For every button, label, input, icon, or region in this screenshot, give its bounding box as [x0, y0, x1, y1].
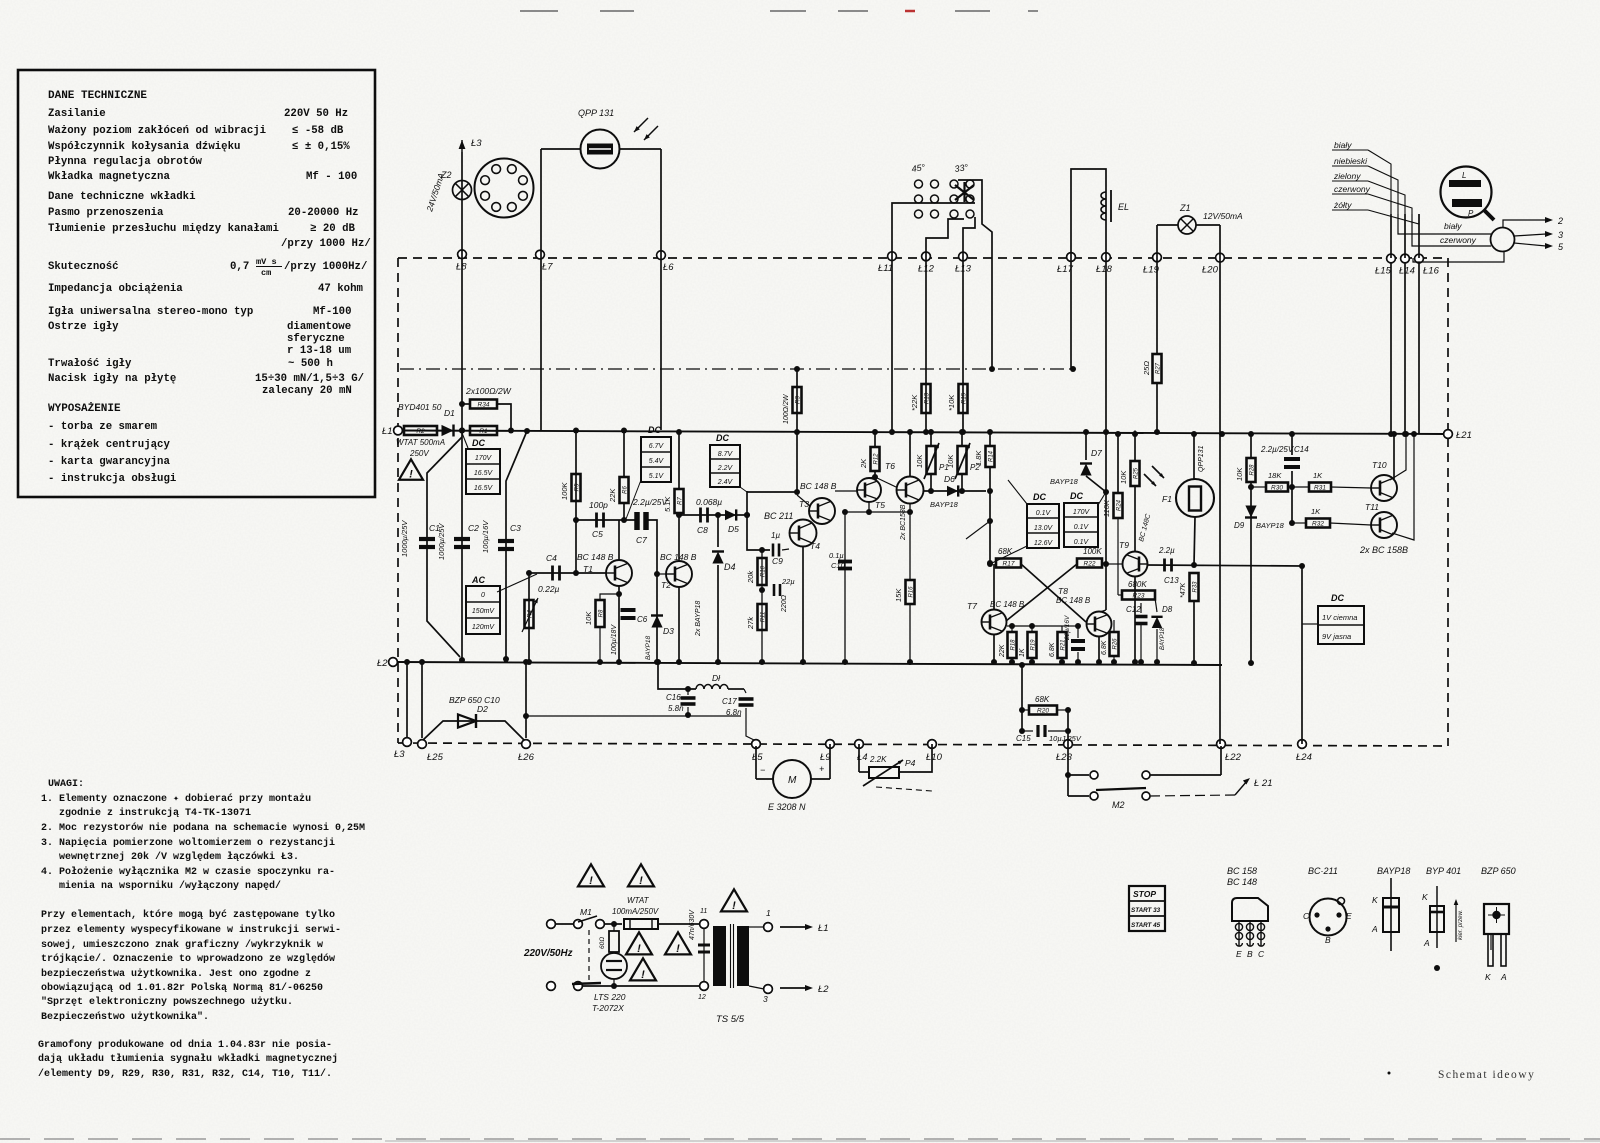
svg-text:T2: T2: [661, 580, 671, 590]
svg-text:3. Napięcia pomierzone woltomi: 3. Napięcia pomierzone woltomierzem o re…: [41, 837, 335, 849]
svg-text:BC 148 B: BC 148 B: [990, 600, 1025, 609]
svg-text:Ł2: Ł2: [377, 658, 388, 669]
svg-text:BAYP18: BAYP18: [645, 636, 652, 660]
svg-text:"Sprzęt elektroniczny powszech: "Sprzęt elektroniczny powszechnego użytk…: [41, 996, 293, 1008]
svg-text:BC 148 B: BC 148 B: [800, 481, 837, 491]
svg-text:DC: DC: [1070, 491, 1083, 501]
svg-text:przez elementy wyspecyfikowane: przez elementy wyspecyfikowane w instruk…: [41, 924, 341, 936]
svg-text:!: !: [409, 469, 413, 481]
svg-text:Mf - 100: Mf - 100: [306, 171, 357, 183]
svg-text:Ł6: Ł6: [663, 262, 674, 273]
svg-text:C16: C16: [666, 693, 681, 702]
svg-text:BC 148: BC 148: [1227, 877, 1257, 887]
svg-text:Z1: Z1: [1179, 203, 1191, 213]
svg-text:8.7V: 8.7V: [718, 451, 734, 458]
svg-text:16.5V: 16.5V: [474, 470, 494, 477]
svg-text:C3: C3: [510, 523, 521, 533]
svg-text:R13: R13: [924, 392, 930, 404]
svg-text:K: K: [1372, 895, 1378, 905]
svg-text:D9: D9: [1234, 521, 1245, 530]
svg-text:1µ: 1µ: [771, 531, 780, 540]
svg-text:T8: T8: [1058, 586, 1068, 596]
svg-text:T7: T7: [967, 601, 977, 611]
svg-text:10K: 10K: [584, 611, 593, 625]
svg-text:220Ω: 220Ω: [781, 594, 788, 613]
svg-text:5.4V: 5.4V: [649, 458, 665, 465]
svg-text:Ł11: Ł11: [878, 263, 893, 274]
svg-text:C5: C5: [592, 529, 603, 539]
svg-text:BC 148 B: BC 148 B: [1056, 596, 1091, 605]
svg-text:C15: C15: [1016, 734, 1031, 743]
svg-text:K: K: [1485, 972, 1491, 982]
svg-text:6.7V: 6.7V: [649, 443, 665, 450]
svg-text:R2: R2: [416, 428, 425, 435]
svg-text:C8: C8: [697, 525, 708, 535]
svg-text:Trwałość igły: Trwałość igły: [48, 358, 132, 370]
svg-text:+: +: [819, 764, 824, 774]
svg-text:L: L: [1462, 171, 1466, 180]
svg-text:100K: 100K: [1083, 547, 1102, 556]
svg-text:R3: R3: [795, 396, 801, 404]
svg-text:3: 3: [1558, 230, 1563, 240]
svg-text:R31: R31: [1314, 485, 1326, 492]
svg-text:250V: 250V: [409, 449, 429, 458]
svg-text:P4: P4: [905, 758, 916, 768]
svg-text:START 33: START 33: [1131, 907, 1161, 914]
svg-text:R5: R5: [574, 483, 580, 491]
svg-text:R34: R34: [478, 402, 490, 409]
svg-text:6.8K: 6.8K: [1049, 642, 1056, 657]
svg-text:≤ ± 0,15%: ≤ ± 0,15%: [292, 141, 350, 153]
svg-text:T6: T6: [885, 461, 895, 471]
svg-text:0,7: 0,7: [230, 261, 249, 273]
svg-text:47 kohm: 47 kohm: [318, 283, 363, 295]
svg-text:niebieski: niebieski: [1334, 156, 1368, 166]
svg-text:Ostrze igły: Ostrze igły: [48, 321, 119, 333]
svg-text:QPP 131: QPP 131: [578, 108, 614, 118]
svg-text:AC: AC: [471, 575, 485, 585]
svg-text:18K: 18K: [1268, 471, 1282, 480]
svg-text:6.8K: 6.8K: [1101, 640, 1108, 655]
svg-text:biały: biały: [1444, 221, 1462, 231]
svg-text:F1: F1: [1162, 494, 1172, 504]
svg-text:1: 1: [766, 908, 771, 918]
svg-text:!: !: [637, 943, 641, 955]
svg-text:2K: 2K: [859, 458, 868, 469]
svg-text:B: B: [1247, 949, 1253, 959]
svg-text:2.2µ: 2.2µ: [1158, 546, 1175, 555]
svg-text:DC: DC: [716, 433, 729, 443]
svg-text:5.1K: 5.1K: [663, 496, 672, 512]
svg-text:12V/50mA: 12V/50mA: [1203, 211, 1243, 221]
svg-text:M: M: [788, 775, 797, 786]
svg-text:4. Położenie wyłącznika M2 w c: 4. Położenie wyłącznika M2 w czasie spoc…: [41, 866, 335, 878]
svg-text:BC·211: BC·211: [1308, 866, 1338, 876]
svg-text:Tłumienie przesłuchu między ka: Tłumienie przesłuchu między kanałami: [48, 223, 279, 235]
svg-text:BC 148 B: BC 148 B: [577, 552, 614, 562]
svg-text:BC 211: BC 211: [764, 511, 793, 521]
svg-text:R17: R17: [1003, 561, 1015, 568]
svg-text:T10: T10: [1372, 460, 1387, 470]
svg-text:3: 3: [763, 994, 768, 1004]
svg-text:T3: T3: [799, 499, 809, 509]
svg-text:Gramofony produkowane od dnia: Gramofony produkowane od dnia 1.04.83r n…: [38, 1039, 332, 1051]
svg-text:22K: 22K: [999, 644, 1006, 658]
svg-text:WTAT: WTAT: [627, 896, 650, 905]
svg-text:C7: C7: [636, 535, 647, 545]
svg-text:Skuteczność: Skuteczność: [48, 261, 119, 273]
svg-text:R27: R27: [1155, 362, 1161, 374]
svg-text:STOP: STOP: [1133, 889, 1156, 899]
svg-text:22µ/16V: 22µ/16V: [1064, 615, 1071, 641]
svg-text:R18: R18: [1010, 639, 1016, 651]
svg-text:czerwony: czerwony: [1440, 235, 1477, 245]
svg-text:0.1V: 0.1V: [1036, 510, 1052, 517]
svg-text:9V jasna: 9V jasna: [1322, 632, 1351, 641]
svg-text:Płynna regulacja obrotów: Płynna regulacja obrotów: [48, 156, 203, 168]
svg-text:Nacisk igły na płytę: Nacisk igły na płytę: [48, 373, 176, 385]
svg-text:R15: R15: [961, 392, 967, 404]
svg-text:C12: C12: [1126, 605, 1141, 614]
svg-text:D6: D6: [944, 474, 955, 484]
svg-text:R6: R6: [622, 486, 628, 494]
svg-text:R12: R12: [873, 453, 879, 465]
svg-text:R28: R28: [1249, 464, 1255, 476]
svg-text:Ł23: Ł23: [1056, 752, 1073, 763]
svg-text:R22: R22: [1084, 561, 1096, 568]
svg-text:R14: R14: [988, 450, 994, 462]
svg-text:K: K: [1422, 892, 1428, 902]
svg-text:!: !: [732, 900, 736, 912]
svg-text:T9: T9: [1119, 540, 1129, 550]
svg-text:1.8K: 1.8K: [974, 450, 983, 466]
svg-text:10K: 10K: [946, 454, 955, 468]
svg-text:R33: R33: [1192, 581, 1198, 593]
svg-text:100K: 100K: [560, 481, 569, 500]
svg-text:Ł20: Ł20: [1202, 265, 1219, 276]
svg-text:6.8n: 6.8n: [726, 708, 742, 717]
svg-text:2.4V: 2.4V: [717, 479, 734, 486]
svg-text:TS 5/5: TS 5/5: [716, 1014, 745, 1025]
svg-text:trójkącie/. Oznaczenie to wpro: trójkącie/. Oznaczenie to wprowadzono ze…: [41, 953, 335, 965]
svg-text:≥ 20 dB: ≥ 20 dB: [310, 223, 355, 235]
svg-text:0.1V: 0.1V: [1074, 539, 1090, 546]
svg-text:T4: T4: [810, 541, 820, 551]
svg-text:zalecany 20 mN: zalecany 20 mN: [262, 385, 352, 397]
svg-text:C6: C6: [637, 615, 648, 624]
svg-text:Ł3: Ł3: [394, 749, 405, 760]
svg-text:/przy 1000 Hz/: /przy 1000 Hz/: [281, 238, 371, 250]
svg-text:10µJ 25V: 10µJ 25V: [1049, 734, 1082, 743]
svg-text:DC: DC: [648, 425, 661, 435]
svg-text:170V: 170V: [475, 455, 493, 462]
svg-text:BYP 401: BYP 401: [1426, 866, 1461, 876]
svg-text:10K: 10K: [1119, 470, 1128, 484]
svg-text:BZP 650 C10: BZP 650 C10: [449, 695, 500, 705]
svg-text:Ł5: Ł5: [752, 752, 763, 763]
svg-text:110K: 110K: [1102, 499, 1111, 517]
svg-text:E: E: [1236, 949, 1242, 959]
svg-text:LTS 220: LTS 220: [594, 992, 626, 1002]
svg-text:Ł7: Ł7: [542, 262, 553, 273]
svg-text:27k: 27k: [746, 616, 755, 630]
svg-text:Ł14: Ł14: [1399, 266, 1415, 277]
svg-text:R7: R7: [677, 497, 683, 505]
svg-text:M2: M2: [1112, 800, 1125, 810]
svg-text:2x BC158B: 2x BC158B: [900, 504, 907, 541]
svg-text:Ł16: Ł16: [1423, 266, 1440, 277]
svg-text:0.1V: 0.1V: [1074, 524, 1090, 531]
svg-text:Wkładka magnetyczna: Wkładka magnetyczna: [48, 171, 170, 183]
svg-text:2.2K: 2.2K: [869, 755, 887, 764]
svg-text:dają układu tłumienia sygnału: dają układu tłumienia sygnału wkładki ma…: [38, 1053, 338, 1065]
svg-text:Ł15: Ł15: [1375, 265, 1392, 276]
svg-text:obowiązującą od 1.01.82r Polsk: obowiązującą od 1.01.82r Polską Normą 81…: [41, 982, 323, 994]
svg-text:68K: 68K: [1035, 695, 1050, 704]
svg-text:R25: R25: [1133, 467, 1139, 479]
svg-text:WTAT 500mA: WTAT 500mA: [396, 438, 445, 447]
svg-text:Ł1: Ł1: [818, 923, 829, 934]
svg-text:2x BC 158B: 2x BC 158B: [1359, 545, 1408, 555]
svg-text:2: 2: [1557, 216, 1563, 226]
svg-text:Ł10: Ł10: [926, 752, 943, 763]
svg-text:1K: 1K: [1019, 648, 1026, 657]
svg-text:zgodnie z instrukcją T4-TK-130: zgodnie z instrukcją T4-TK-13071: [59, 807, 251, 819]
svg-text:BYD401 50: BYD401 50: [398, 402, 442, 412]
svg-text:10K: 10K: [1235, 467, 1244, 481]
svg-text:Ł1: Ł1: [382, 426, 393, 437]
svg-text:100mA/250V: 100mA/250V: [612, 907, 659, 916]
svg-text:!: !: [639, 875, 643, 887]
svg-text:Igła uniwersalna stereo-mono t: Igła uniwersalna stereo-mono typ: [48, 306, 253, 318]
svg-text:P: P: [1468, 209, 1474, 218]
svg-text:*22K: *22K: [910, 394, 919, 411]
svg-text:Ł22: Ł22: [1225, 752, 1242, 763]
svg-text:15÷30 mN/1,5÷3 G/: 15÷30 mN/1,5÷3 G/: [255, 373, 364, 385]
svg-text:D2: D2: [477, 704, 488, 714]
svg-text:r 13-18 um: r 13-18 um: [287, 345, 352, 357]
svg-text:!: !: [676, 943, 680, 955]
svg-text:2. Moc rezystorów nie podana n: 2. Moc rezystorów nie podana na schemaci…: [41, 822, 365, 834]
svg-text:Ł21: Ł21: [1456, 430, 1472, 441]
svg-text:0.068µ: 0.068µ: [696, 497, 722, 507]
svg-text:220V 50 Hz: 220V 50 Hz: [284, 108, 348, 120]
svg-text:12: 12: [698, 994, 706, 1001]
svg-text:R30: R30: [1271, 485, 1283, 492]
svg-text:1K: 1K: [1313, 471, 1323, 480]
svg-text:R19: R19: [1030, 639, 1036, 651]
svg-text:13.0V: 13.0V: [1034, 525, 1054, 532]
svg-text:Ł26: Ł26: [518, 752, 535, 763]
svg-text:Ł24: Ł24: [1296, 752, 1312, 763]
svg-text:47n/630V: 47n/630V: [689, 909, 696, 940]
svg-text:R8: R8: [598, 609, 604, 617]
svg-text:D1: D1: [444, 408, 455, 418]
svg-text:- torba ze smarem: - torba ze smarem: [48, 421, 158, 433]
svg-text:mV s: mV s: [256, 257, 277, 267]
svg-text:Zasilanie: Zasilanie: [48, 108, 106, 120]
svg-text:150mV: 150mV: [472, 608, 496, 615]
svg-text:B: B: [1325, 935, 1331, 945]
svg-text:E: E: [1346, 911, 1352, 921]
svg-text:Ł3: Ł3: [471, 138, 482, 149]
svg-text:EL: EL: [1118, 202, 1129, 212]
svg-text:60Ω: 60Ω: [599, 937, 606, 949]
svg-text:DC: DC: [1033, 492, 1046, 502]
svg-text:BAYP18: BAYP18: [1160, 627, 1166, 650]
svg-text:C2: C2: [468, 523, 479, 533]
svg-text:WYPOSAŻENIE: WYPOSAŻENIE: [48, 402, 121, 415]
svg-text:DC: DC: [472, 438, 485, 448]
svg-text:- instrukcja obsługi: - instrukcja obsługi: [48, 473, 176, 485]
svg-text:żółty: żółty: [1333, 200, 1352, 210]
svg-text:22K: 22K: [608, 488, 617, 503]
svg-text:C: C: [1303, 911, 1310, 921]
svg-text:68K: 68K: [998, 547, 1013, 556]
svg-text:E 3208 N: E 3208 N: [768, 802, 806, 812]
svg-text:M1: M1: [580, 907, 592, 917]
svg-text:R1: R1: [479, 428, 488, 435]
svg-text:BC 158: BC 158: [1227, 866, 1257, 876]
svg-text:sferyczne: sferyczne: [287, 333, 345, 345]
svg-text:D7: D7: [1091, 448, 1102, 458]
svg-text:220V/50Hz: 220V/50Hz: [523, 948, 573, 959]
svg-text:100µ/18V: 100µ/18V: [611, 624, 618, 655]
svg-text:kier. przew.: kier. przew.: [1458, 910, 1464, 940]
svg-text:≤ -58 dB: ≤ -58 dB: [292, 125, 344, 137]
svg-text:Dł: Dł: [712, 673, 721, 683]
svg-text:0.1µ: 0.1µ: [829, 551, 844, 560]
svg-text:BZP 650: BZP 650: [1481, 866, 1516, 876]
svg-text:Ł18: Ł18: [1096, 264, 1113, 275]
svg-text:100Ω/2W: 100Ω/2W: [783, 393, 790, 424]
svg-text:sowej, umieszczono znak grafic: sowej, umieszczono znak graficzny /wykrz…: [41, 939, 323, 951]
svg-text:−: −: [760, 765, 765, 775]
svg-text:zielony: zielony: [1333, 171, 1361, 181]
svg-text:45°: 45°: [911, 162, 926, 174]
svg-text:!: !: [641, 969, 645, 981]
svg-text:C17: C17: [722, 697, 737, 706]
svg-text:5.1V: 5.1V: [649, 473, 665, 480]
svg-text:wewnętrznej 20k /V względem ł: wewnętrznej 20k /V względem łączówki Ł3.: [59, 851, 299, 863]
svg-text:16.5V: 16.5V: [474, 485, 494, 492]
svg-text:Dane techniczne wkładki: Dane techniczne wkładki: [48, 191, 196, 203]
svg-text:A: A: [1500, 972, 1507, 982]
svg-text:Pasmo przenoszenia: Pasmo przenoszenia: [48, 207, 164, 219]
svg-text:20k: 20k: [746, 570, 755, 584]
svg-text:R21: R21: [1060, 639, 1066, 650]
svg-text:C: C: [1258, 949, 1265, 959]
svg-text:C14: C14: [1294, 445, 1309, 454]
svg-text:D5: D5: [728, 524, 739, 534]
svg-text:C1: C1: [429, 523, 440, 533]
svg-text:2x100Ω/2W: 2x100Ω/2W: [465, 386, 512, 396]
svg-text:2.2V: 2.2V: [717, 465, 734, 472]
svg-text:Przy elementach, które mogą by: Przy elementach, które mogą być zastępow…: [41, 909, 335, 921]
svg-text:15K: 15K: [894, 588, 903, 602]
svg-text:mienia na wsporniku /wyłączony: mienia na wsporniku /wyłączony napęd/: [59, 880, 281, 892]
svg-text:- karta gwarancyjna: - karta gwarancyjna: [48, 456, 170, 468]
svg-text:25Ω: 25Ω: [1142, 361, 1151, 376]
svg-text:1V ciemna: 1V ciemna: [1322, 613, 1357, 622]
svg-text:!: !: [589, 875, 593, 887]
svg-text:T-2072X: T-2072X: [592, 1003, 624, 1013]
svg-text:/przy 1000Hz/: /przy 1000Hz/: [284, 261, 367, 273]
svg-text:Bezpieczeństwo użytkownika".: Bezpieczeństwo użytkownika".: [41, 1011, 209, 1023]
svg-text:BAYP18: BAYP18: [930, 500, 959, 509]
svg-text:czerwony: czerwony: [1334, 184, 1371, 194]
svg-text:UWAGI:: UWAGI:: [48, 779, 84, 790]
svg-text:C9: C9: [772, 556, 783, 566]
svg-text:~ 500 h: ~ 500 h: [288, 358, 333, 370]
svg-text:10K: 10K: [915, 454, 924, 468]
svg-text:Ważony poziom zakłóceń od wibr: Ważony poziom zakłóceń od wibracji: [48, 125, 266, 137]
svg-text:5.8n: 5.8n: [668, 704, 684, 713]
svg-text:2x BAYP18: 2x BAYP18: [695, 601, 702, 637]
svg-text:T1: T1: [583, 564, 593, 574]
svg-text:diamentowe: diamentowe: [287, 321, 351, 333]
svg-text:T5: T5: [875, 500, 885, 510]
svg-text:QPP131: QPP131: [1198, 445, 1205, 472]
svg-text:Impedancja obciążenia: Impedancja obciążenia: [48, 283, 183, 295]
svg-text:20-20000 Hz: 20-20000 Hz: [288, 207, 359, 219]
svg-text:1000µ/25V: 1000µ/25V: [400, 520, 409, 557]
svg-text:Współczynnik kołysania dźwięku: Współczynnik kołysania dźwięku: [48, 141, 240, 153]
svg-text:11: 11: [700, 908, 707, 915]
svg-text:bezpieczeństwa użytkownika. Je: bezpieczeństwa użytkownika. Jest ono zgo…: [41, 968, 311, 980]
svg-text:D3: D3: [663, 626, 674, 636]
svg-text:C4: C4: [546, 553, 557, 563]
svg-text:100µ/16V: 100µ/16V: [481, 520, 490, 553]
svg-text:33°: 33°: [954, 162, 969, 174]
svg-text:22µ: 22µ: [781, 577, 795, 586]
svg-text:R20: R20: [1037, 708, 1049, 715]
svg-text:R10: R10: [760, 565, 766, 577]
svg-text:*47K: *47K: [1180, 582, 1187, 598]
svg-text:- krążek centrujący: - krążek centrujący: [48, 439, 170, 451]
svg-text:Mf-100: Mf-100: [313, 306, 351, 318]
svg-text:biały: biały: [1334, 140, 1352, 150]
svg-text:Ł25: Ł25: [427, 752, 444, 763]
svg-text:0: 0: [481, 592, 485, 599]
svg-text:Ł 21: Ł 21: [1254, 778, 1273, 789]
svg-text:/elementy D9, R29, R30, R31, R: /elementy D9, R29, R30, R31, R32, C14, T…: [38, 1068, 332, 1080]
svg-text:A: A: [1423, 938, 1430, 948]
svg-text:BAYP18: BAYP18: [1256, 521, 1285, 530]
svg-text:R24: R24: [1116, 499, 1122, 511]
svg-text:Ł2: Ł2: [818, 984, 829, 995]
svg-text:C13: C13: [1164, 576, 1179, 585]
svg-text:170V: 170V: [1073, 509, 1091, 516]
svg-text:DANE TECHNICZNE: DANE TECHNICZNE: [48, 90, 147, 102]
svg-text:2.2µ/25V: 2.2µ/25V: [1260, 445, 1294, 454]
svg-text:D4: D4: [724, 562, 736, 572]
svg-text:1K: 1K: [1311, 507, 1321, 516]
svg-text:R11: R11: [760, 612, 766, 623]
svg-text:START 45: START 45: [1131, 922, 1161, 929]
svg-text:DC: DC: [1331, 593, 1344, 603]
svg-text:Schemat ideowy: Schemat ideowy: [1438, 1069, 1535, 1081]
svg-text:R16: R16: [908, 586, 914, 598]
svg-text:100p: 100p: [589, 500, 608, 510]
svg-text:R32: R32: [1312, 521, 1324, 528]
svg-text:120mV: 120mV: [472, 624, 496, 631]
svg-text:680K: 680K: [1128, 580, 1147, 589]
svg-text:T11: T11: [1365, 502, 1379, 512]
svg-text:0.22µ: 0.22µ: [538, 584, 560, 594]
svg-text:BAYP18: BAYP18: [1050, 477, 1079, 486]
svg-text:D8: D8: [1162, 605, 1173, 614]
